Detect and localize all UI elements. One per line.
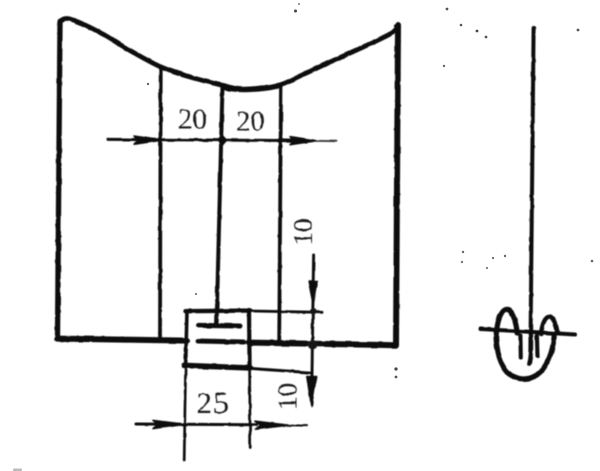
dim 20 left arrowhead [134, 136, 162, 144]
svg-text:10: 10 [272, 383, 303, 411]
block top extension line (for dim 10) [251, 311, 323, 312]
speck [298, 3, 300, 5]
block bottom extension line (for dim 10) [251, 368, 312, 372]
dim 20 right arrowhead [290, 137, 317, 145]
clamp block right edge [247, 310, 252, 367]
junction blob at block-top extension [310, 308, 316, 314]
bottom edge right segment [249, 343, 396, 346]
side view: left tine [518, 336, 522, 359]
speck [147, 83, 149, 85]
junction blob at body bottom edge [308, 340, 318, 350]
speck [461, 261, 463, 263]
svg-text:10: 10 [288, 219, 318, 246]
speck [492, 257, 494, 259]
speck [486, 267, 488, 269]
clamp block bottom edge [184, 365, 251, 368]
dim 10 lower arrowhead [307, 377, 316, 407]
dim 25 right tail [287, 424, 307, 426]
side view: right ear loop [541, 317, 557, 334]
speck [460, 24, 463, 27]
dimension line 25 [136, 423, 256, 427]
speck [395, 376, 398, 379]
dim 20 thick connector to right arrow [279, 138, 298, 142]
speck [476, 30, 479, 33]
right inner groove line [279, 85, 281, 344]
speck [485, 36, 488, 39]
side view: horizontal line [481, 329, 575, 335]
dim 25 left extension line [184, 367, 185, 461]
speck [394, 367, 397, 370]
speck [462, 251, 464, 253]
speck [443, 65, 445, 67]
dim 20 right tail [316, 140, 336, 142]
top-right corner ink blob [394, 23, 401, 30]
smudge bottom left [13, 469, 22, 471]
dimension line 20/20 [108, 139, 282, 140]
right edge of V-block body [396, 25, 398, 345]
slot dash inside block [199, 323, 241, 329]
dim 10 vertical line [312, 255, 314, 404]
junction dot at centerline [217, 134, 228, 147]
dim 25 right arrowhead [255, 421, 288, 429]
speck [504, 255, 506, 257]
dim 25 right extension line [248, 367, 251, 448]
clamp block top edge [186, 308, 251, 313]
svg-text:20: 20 [178, 104, 207, 136]
left edge of V-block body [58, 22, 61, 339]
speck [577, 29, 580, 32]
speck [195, 293, 197, 295]
clamp block left edge [186, 311, 187, 366]
side view: center tine with curl [529, 333, 531, 364]
speck [591, 260, 594, 263]
speck [294, 10, 297, 13]
dim 10 upper arrowhead [309, 282, 318, 305]
side view: right tine [535, 336, 540, 357]
svg-text:20: 20 [236, 106, 265, 138]
top concave curve of V-block [60, 18, 398, 89]
center line of groove [217, 86, 223, 324]
dim 25 left arrowhead [153, 420, 185, 428]
bottom edge left segment [57, 339, 187, 341]
left inner groove line [158, 67, 162, 340]
bottom edge segment through block [198, 341, 244, 342]
svg-text:25: 25 [197, 385, 230, 420]
top curve second ink pass (scan thickening) [224, 87, 278, 91]
side view: left ear loop continuing into cup outline [496, 309, 554, 379]
speck [446, 8, 449, 11]
side view: shank vertical line [531, 28, 534, 334]
